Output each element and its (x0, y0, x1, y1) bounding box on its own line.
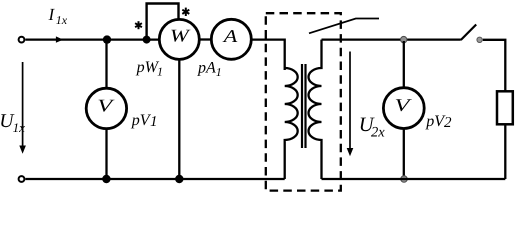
svg-text:1x: 1x (56, 13, 68, 27)
voltmeter V1 lead bottom (105, 129, 107, 179)
voltmeter V2 lead top (403, 41, 405, 88)
svg-text:1: 1 (216, 65, 222, 79)
wire bottom bus left (primary side) (25, 178, 284, 180)
wire wattmeter voltage-coil loop (147, 4, 179, 40)
transformer T secondary winding (309, 40, 322, 179)
svg-text:pV: pV (131, 112, 152, 129)
wire bottom bus right (secondary side) (322, 178, 506, 180)
wire switch to load corner (483, 40, 506, 92)
polarity asterisk left (135, 21, 142, 29)
wire resistor bottom lead (504, 124, 506, 179)
voltmeter V1 lead top (105, 40, 107, 89)
dashed enclosure box around transformer (266, 13, 341, 190)
transformer core (301, 64, 303, 148)
wire W to A stub (200, 38, 212, 40)
switch S contact (gray dot) (477, 37, 482, 42)
node junction V1 bottom (102, 175, 110, 183)
svg-text:pA: pA (197, 59, 216, 76)
ammeter A (pA1) circle (211, 19, 251, 59)
wire ammeter to transformer primary (252, 40, 285, 70)
svg-text:A: A (223, 26, 239, 46)
svg-text:W: W (170, 26, 192, 46)
node junction W bottom (175, 175, 183, 183)
node junction V2 top (gray) (401, 36, 407, 42)
transformer T primary winding (285, 68, 298, 179)
wattmeter voltage coil lead bottom (178, 60, 180, 180)
node junction to V1 (top) (103, 35, 111, 43)
terminal input bottom-left (19, 176, 25, 182)
current arrow I1x head (56, 36, 63, 42)
svg-text:pW: pW (136, 59, 160, 76)
resistor load R (497, 91, 513, 124)
terminal input top-left (19, 37, 25, 43)
arrow U2x (349, 52, 351, 150)
switch S load (open blade) (461, 25, 476, 41)
switch blade mark over transformer secondary (309, 19, 379, 34)
svg-text:2: 2 (444, 115, 452, 131)
voltmeter V2 lead bottom (403, 129, 405, 180)
svg-text:2x: 2x (371, 125, 385, 141)
polarity asterisk right (182, 8, 189, 16)
voltmeter V2 (pV2) circle (383, 88, 424, 129)
wire secondary top bus (322, 38, 461, 40)
arrow U1x (22, 62, 24, 147)
wire top bus (terminal to wattmeter) (25, 38, 158, 40)
node junction V2 bottom (gray) (401, 176, 408, 183)
svg-text:1: 1 (150, 114, 158, 130)
svg-text:1: 1 (157, 64, 163, 78)
op wattmeter W (pW1) circle (159, 19, 199, 59)
voltmeter V1 (pV1) circle (86, 88, 126, 128)
node junction wattmeter current/voltage coil (143, 36, 151, 44)
